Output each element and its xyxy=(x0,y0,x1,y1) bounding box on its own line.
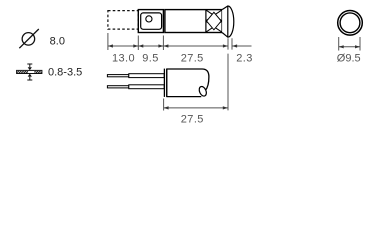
svg-text:2.3: 2.3 xyxy=(236,52,253,64)
arrowheads xyxy=(108,44,237,47)
hole circle xyxy=(146,16,152,22)
svg-text:9.5: 9.5 xyxy=(142,52,159,64)
bezel flange xyxy=(222,6,234,37)
svg-text:13.0: 13.0 xyxy=(112,52,135,64)
rear housing block xyxy=(138,10,163,33)
lens cone lines xyxy=(206,10,221,32)
lens section divider xyxy=(205,10,207,33)
lamp bulb body xyxy=(167,69,209,97)
svg-text:0.8-3.5: 0.8-3.5 xyxy=(48,67,82,79)
top dimension line xyxy=(108,45,228,47)
lamp base edge xyxy=(163,69,165,97)
top dimension extension lines xyxy=(108,33,232,110)
svg-text:Ø9.5: Ø9.5 xyxy=(337,52,361,64)
panel thickness symbol xyxy=(17,64,42,80)
main body xyxy=(165,10,222,33)
inner rounded insert xyxy=(141,13,162,29)
svg-text:27.5: 27.5 xyxy=(181,113,204,125)
bulb tip ellipse xyxy=(198,85,208,97)
front view dimension xyxy=(339,37,360,51)
svg-text:8.0: 8.0 xyxy=(50,36,65,48)
bottom dimension xyxy=(164,99,228,111)
dimension labels xyxy=(112,52,253,64)
diameter symbol Ø (mounting hole 8.0) xyxy=(19,29,39,48)
bezel outer circle xyxy=(338,10,363,35)
lead 2 xyxy=(107,86,128,88)
lead 1 xyxy=(107,74,164,89)
svg-text:27.5: 27.5 xyxy=(181,52,204,64)
threaded rear section (hidden/dashed) xyxy=(108,11,138,30)
lens diamond xyxy=(207,12,222,30)
bezel inner circle xyxy=(340,13,360,33)
